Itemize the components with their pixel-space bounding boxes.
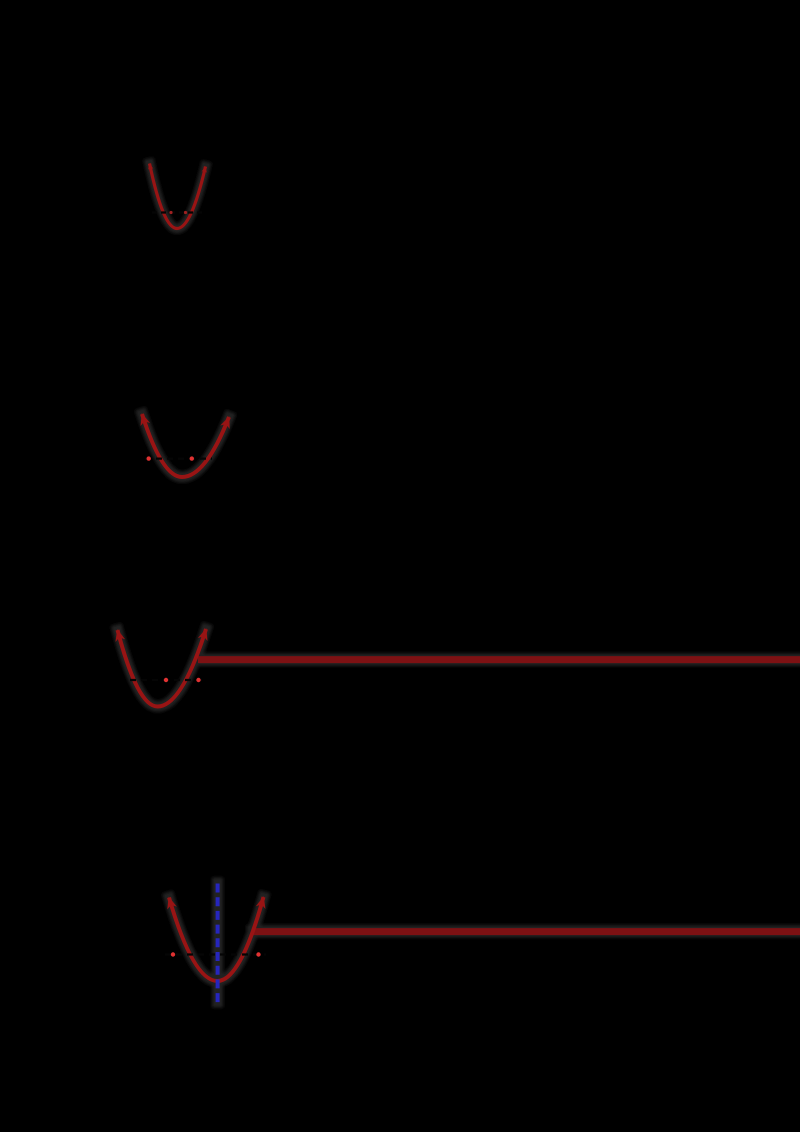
panel 3 potential curve bbox=[118, 629, 207, 707]
panel 2 potential curve bbox=[142, 414, 229, 477]
panel 3 minima dots bbox=[164, 678, 168, 682]
hidden black dashed level line panel 1 (cuts curve) bbox=[152, 211, 202, 213]
hidden black dashed level line panel 2 (cuts curve) bbox=[145, 458, 212, 460]
blue dashed vertical line (panel 4 axis) bbox=[216, 884, 220, 1003]
hidden black dashed level line panel 4 (cuts curve) bbox=[165, 953, 266, 955]
artifact halo under red line 1 bbox=[198, 653, 800, 666]
panel 1 minima dots bbox=[169, 211, 172, 214]
red horizontal line 1 (panel 3 level line) bbox=[198, 656, 800, 663]
red horizontal line 2 (panel 4 level line) bbox=[253, 928, 800, 935]
artifact halo under panel 2 curve bbox=[142, 414, 229, 477]
artifact halo under panel 1 curve bbox=[118, 164, 800, 1003]
artifact halo under blue dashed line bbox=[212, 883, 223, 1002]
panel 4 potential curve bbox=[169, 897, 264, 981]
panel 2 minima dots bbox=[147, 456, 151, 460]
artifact halo under panel 4 curve bbox=[169, 897, 264, 981]
artifact halo under red line 2 bbox=[253, 925, 800, 938]
artifact halo under panel 3 curve bbox=[118, 629, 207, 707]
panel 1 potential curve bbox=[150, 164, 206, 229]
panel 4 minima dots bbox=[171, 952, 175, 956]
hidden black dashed level line panel 3 (cuts curve) bbox=[130, 679, 205, 681]
